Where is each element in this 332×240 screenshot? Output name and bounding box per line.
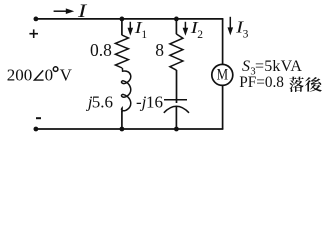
label PF=0.8 lagging [239,74,322,92]
wire branch1 top stub [121,19,123,35]
label I [77,1,89,22]
resistor 0.8 [115,35,128,68]
arrow current I2 [183,22,189,36]
wire branch2 bottom stub [175,107,177,129]
wire branch2 middle stub [176,70,178,103]
capacitor -j16 top plate [164,99,187,101]
wire branch2 top stub [175,19,177,34]
label I1 [134,18,148,41]
svg-text:8: 8 [155,40,164,60]
label 0.8 [90,40,112,60]
node junction B top of branch 2 [174,17,179,22]
node terminal top-left [34,17,39,22]
svg-text:5.6: 5.6 [92,92,113,111]
source minus terminal [36,117,41,119]
wire branch1 bottom stub [121,111,123,129]
svg-text:0: 0 [45,66,54,85]
wire top horizontal [36,18,223,20]
label j5.6 [86,92,113,111]
inductor j5.6 [122,68,131,112]
wire bottom horizontal [36,128,223,130]
svg-text:=5kVA: =5kVA [255,58,302,75]
svg-text:200: 200 [7,66,33,85]
capacitor -j16 curved plate [164,106,189,113]
wire right vertical upper [222,19,224,65]
resistor 8 [170,34,183,70]
svg-text:1: 1 [141,29,147,41]
label 8 [155,40,164,60]
arrow current I1 [128,22,134,36]
node terminal bottom-left [34,127,39,132]
label I3 [235,18,249,41]
svg-text:0.8: 0.8 [90,40,112,60]
label I2 [190,18,204,41]
arrow current I3 [228,17,234,36]
node junction bottom of branch 2 [174,127,179,132]
svg-text:S: S [242,58,250,75]
source value label 200∠0°V [7,66,73,85]
svg-text:16: 16 [146,92,163,111]
motor M [212,64,233,85]
svg-text:2: 2 [197,29,203,41]
source 200∠0°V plus terminal [29,29,38,38]
wire right vertical lower [222,85,224,129]
label S3=5kVA [242,58,302,77]
arrow current I [54,8,75,14]
node junction bottom of branch 1 [120,127,125,132]
svg-text:M: M [217,67,229,84]
svg-text:3: 3 [243,29,249,41]
svg-text:PF=0.8: PF=0.8 [239,74,284,91]
node junction A top of branch 1 [120,17,125,22]
svg-text:V: V [60,66,73,85]
label -j16 [136,92,163,111]
